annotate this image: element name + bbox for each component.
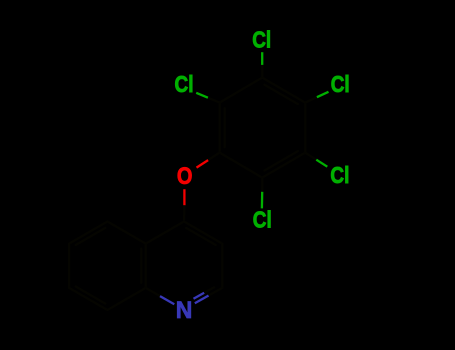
wire double bond inner LR-B: [265, 151, 298, 170]
wire bond C4-C3: [184, 222, 222, 244]
bond to Cl bottom (green half): [261, 192, 264, 209]
bond to Cl upper-right (olive half): [305, 97, 317, 102]
wire double bond inner C4a-C8a: [140, 249, 142, 283]
wire bond C4-C4a: [146, 222, 184, 244]
svg-text:Cl: Cl: [330, 162, 349, 188]
benzene ring A (pentachlorophenyl) outer bonds: [220, 78, 306, 178]
quinoline carbon skeleton: [69, 222, 222, 311]
ether bond ring A to O (red half): [197, 160, 209, 168]
bond to Cl upper-left (olive half): [208, 98, 220, 103]
wire bond C5-C6: [69, 222, 107, 244]
bond C8a-N (blue half): [160, 296, 174, 304]
wire bond C7-C8: [69, 288, 107, 310]
svg-text:Cl: Cl: [252, 26, 271, 52]
ether bond O to C4 (red half): [183, 189, 185, 205]
double bond N-C2 outer (olive half): [209, 288, 223, 296]
wire bond UR-T: [262, 78, 305, 103]
wire bond UL-LL: [218, 103, 220, 153]
svg-text:Cl: Cl: [331, 71, 350, 97]
wire bond LL-B: [220, 153, 263, 178]
wire double bond inner T-UR: [265, 85, 298, 104]
svg-text:O: O: [177, 163, 193, 190]
ether bond O to C4 (olive half): [183, 205, 186, 221]
wire bond C4a-C5: [107, 222, 145, 244]
double bond N-C2 inner (blue half): [194, 293, 205, 299]
double bond N-C2 inner (olive half): [204, 287, 215, 293]
wire double bond inner C3-C4: [186, 228, 216, 245]
bond to Cl top (green half): [261, 52, 263, 65]
double bond N-C2 outer (blue half): [195, 296, 209, 304]
svg-text:N: N: [176, 297, 193, 324]
wire bond LR-UR: [304, 103, 306, 153]
bond to Cl upper-right (green half): [317, 92, 329, 97]
svg-text:Cl: Cl: [175, 71, 194, 97]
wire double bond inner C7-C8: [76, 287, 106, 304]
bond C8a-N (olive half): [146, 288, 160, 296]
bond to Cl upper-left (green half): [196, 93, 208, 98]
bond to Cl bottom (olive half): [261, 178, 263, 192]
wire bond B-LR: [262, 153, 305, 178]
wire bond T-UL: [220, 78, 263, 103]
wire bond C6-C7: [68, 244, 70, 288]
bond to Cl lower-right (green half): [316, 160, 327, 167]
wire double bond inner UL-LL: [223, 108, 225, 147]
svg-text:Cl: Cl: [253, 207, 272, 233]
wire double bond inner C5-C6: [76, 228, 106, 245]
wire bond C8-C8a: [107, 288, 145, 310]
wire bond C3-C2: [221, 244, 223, 288]
bond to Cl top (olive half): [261, 65, 263, 78]
ether bond ring A to O (olive half): [208, 153, 220, 161]
bond to Cl lower-right (olive half): [305, 153, 316, 160]
wire bond C4a-C8a: [145, 244, 147, 288]
